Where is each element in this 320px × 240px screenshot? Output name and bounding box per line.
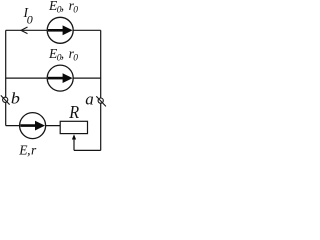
terminal b	[1, 95, 10, 104]
wire left	[5, 30, 7, 125]
terminal a	[96, 96, 106, 106]
wire right	[100, 30, 102, 150]
wire top	[6, 29, 101, 31]
svg-text:a: a	[85, 90, 94, 109]
svg-text:E0,r0: E0,r0	[48, 46, 78, 64]
wire wiper bottom	[74, 149, 101, 151]
svg-text:E,r: E,r	[18, 142, 37, 157]
svg-text:b: b	[11, 90, 20, 107]
wire wiper vertical	[73, 138, 75, 151]
wiper arrow	[72, 134, 76, 139]
current arrow I0	[21, 27, 28, 34]
emf source E0,r0 top	[47, 17, 73, 43]
svg-text:0: 0	[27, 13, 33, 27]
wire middle	[6, 77, 101, 79]
wire bottom	[6, 125, 61, 127]
resistor R	[60, 121, 87, 133]
emf source E0,r0 middle	[47, 65, 73, 91]
svg-text:R: R	[68, 102, 79, 122]
battery E,r	[20, 113, 46, 139]
